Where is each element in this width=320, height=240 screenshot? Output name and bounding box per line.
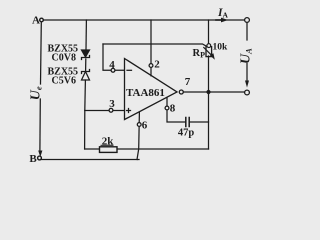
svg-text:10k: 10k	[213, 43, 229, 53]
label Rp	[193, 48, 206, 60]
pin 6 label	[142, 120, 148, 132]
wire cap right lead	[189, 121, 208, 123]
wire pin2 from top rail	[150, 20, 152, 76]
arrow U_A down	[245, 81, 249, 88]
label 2k underline	[101, 144, 113, 146]
label 2k	[102, 136, 115, 148]
wire pin6 down to bottom	[137, 112, 139, 159]
pin 3 label	[109, 98, 115, 110]
svg-text:RP: RP	[193, 48, 206, 60]
svg-text:3: 3	[109, 98, 115, 110]
wire feedback vertical to pin4	[103, 44, 125, 70]
wire U_A arrow segment	[246, 64, 248, 81]
label 10k	[213, 43, 229, 53]
wire Rp bottom to output junction and down	[208, 56, 210, 149]
resistor R1 2k body	[100, 147, 118, 153]
current arrow I_A	[216, 19, 222, 21]
svg-text:TAA861: TAA861	[126, 87, 165, 99]
node A	[32, 15, 40, 27]
pin 8 circle	[165, 106, 169, 110]
pin 4 label	[109, 59, 115, 71]
label I_A	[217, 7, 229, 19]
resistor Rp body	[206, 47, 212, 57]
pin 7 output circle	[179, 90, 183, 94]
zener label BZX55 C0V8	[48, 44, 79, 64]
wire U_A top segment	[246, 23, 248, 41]
op-amp plus sign	[127, 109, 131, 113]
terminal output top right	[245, 18, 250, 23]
svg-text:C5V6: C5V6	[52, 76, 76, 87]
wire zener chain bottom	[84, 80, 87, 149]
wire left rail from A down	[40, 23, 43, 85]
capacitor C1 47p plates	[186, 118, 189, 127]
arrow U_e down	[38, 151, 42, 158]
wire top rail A to right terminal	[44, 19, 245, 21]
Rp wiper arrow	[204, 48, 212, 56]
svg-text:2: 2	[154, 59, 160, 71]
pin 6 circle	[137, 123, 141, 127]
svg-text:2k: 2k	[102, 136, 115, 148]
terminal B	[38, 156, 42, 160]
wire feedback horizontal to Rp	[103, 44, 206, 46]
label U_e	[29, 86, 44, 100]
svg-text:7: 7	[185, 76, 191, 88]
pin 3 circle	[109, 108, 113, 112]
svg-text:C0V8: C0V8	[52, 53, 76, 64]
wire pin8 down to cap	[167, 98, 186, 123]
op-amp minus sign	[127, 69, 132, 71]
label 47p	[178, 128, 195, 139]
pin 2 circle	[149, 64, 153, 68]
node B	[29, 153, 37, 165]
svg-text:B: B	[29, 153, 37, 165]
wire output to right terminal	[183, 91, 244, 93]
wire bottom from B	[42, 159, 140, 161]
wire bottom feedback horizontal	[85, 148, 209, 150]
wire left rail lower segment	[39, 99, 41, 150]
svg-text:6: 6	[142, 120, 148, 132]
wire pin3 to op-amp	[85, 110, 125, 112]
wire between zeners	[85, 59, 87, 71]
wire Rp vertical top	[208, 20, 210, 46]
pin 4 circle	[111, 68, 115, 72]
pin 2 label	[154, 59, 160, 71]
wire zener chain top	[85, 20, 87, 50]
pin 8 label	[170, 103, 176, 115]
zener label BZX55 C5V6	[48, 67, 79, 87]
Rp wiper terminal circle	[207, 44, 211, 48]
op-amp U1 TAA861	[125, 59, 178, 120]
terminal output bottom right	[245, 90, 250, 95]
terminal A	[40, 18, 44, 22]
label U_A	[239, 48, 254, 64]
svg-text:A: A	[32, 15, 40, 27]
svg-text:4: 4	[109, 59, 115, 71]
zener diode D2 (BZX55 C5V6)	[82, 70, 90, 74]
svg-text:47p: 47p	[178, 128, 195, 139]
svg-text:A: A	[223, 10, 229, 19]
pin 7 label	[185, 76, 191, 88]
svg-text:8: 8	[170, 103, 176, 115]
zener diode D1 (BZX55 C0V8)	[82, 50, 90, 57]
junction output node	[206, 90, 210, 94]
